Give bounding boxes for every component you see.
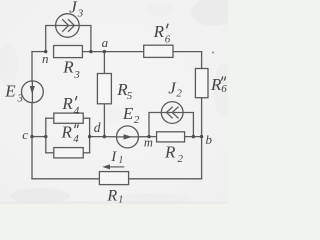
svg-text:3: 3 [77,7,84,19]
label E2 [122,104,140,126]
label R2 [164,143,184,165]
resistor R1 [99,172,128,185]
wire J3 loop right bar [79,26,91,52]
speck [212,52,214,54]
wire R5 branch: R5 to node d [103,104,105,137]
svg-text:3: 3 [17,93,24,105]
label R5 [116,80,133,102]
voltage source E2 [117,126,139,148]
node m [147,135,150,138]
svg-text:4: 4 [73,133,79,145]
svg-text:2: 2 [134,114,140,126]
wire [83,152,89,154]
node c [30,135,33,138]
junction R4 bank left [44,135,47,138]
svg-text:d: d [94,120,101,135]
svg-text:R: R [153,22,165,41]
resistor R6'' [195,69,208,98]
label R4'' [61,123,80,146]
wire bottom: R1 to bottom-right corner [129,178,202,180]
wire right: top corner to R6'' [201,52,203,69]
svg-text:R: R [62,58,74,77]
wire right: R6'' to node b [201,98,203,137]
svg-text:a: a [102,35,109,50]
wire left: corner down to E3 [31,52,33,82]
label J2 [168,79,182,100]
resistor R4' [54,113,83,123]
svg-text:6: 6 [165,34,171,46]
node a [103,50,106,53]
svg-text:E: E [122,104,134,123]
svg-text:b: b [206,132,213,147]
wire J3 loop left bar [46,26,56,52]
wire R4 bank right bar [89,118,91,153]
svg-text:R: R [164,143,176,162]
svg-text:1: 1 [118,155,123,166]
svg-text:R: R [61,123,73,142]
wire mid: node m to R2 [149,136,157,138]
svg-text:n: n [42,51,49,66]
label R1 [106,187,123,205]
current source J2 [161,102,183,124]
wire R4' stubs [46,117,54,119]
svg-text:5: 5 [127,90,133,102]
svg-text:R: R [210,75,222,94]
wire R4 bank left bar [45,118,47,153]
label R4' [61,94,79,117]
current arrow I1 [102,164,124,169]
wire mid: E2 to node m [138,136,149,138]
wire top: R3 right to node a [82,51,143,53]
wire bottom: left corner to R1 [32,178,99,180]
svg-text:2: 2 [178,153,184,165]
svg-text:c: c [22,127,28,142]
label R6'' [210,75,227,95]
wire J2 loop right bar [183,113,193,137]
wire J2 loop left bar [149,113,161,137]
resistor R2 [157,132,185,142]
svg-text:1: 1 [118,195,123,204]
label E3 [4,81,23,104]
wire mid: R2 to node b [185,136,202,138]
junction R4 bank right [88,135,91,138]
svg-text:2: 2 [176,88,182,100]
svg-text:6: 6 [221,83,227,95]
label R3 [62,58,80,81]
svg-text:m: m [144,136,153,150]
voltage source E3 [22,81,44,103]
current source J3 [56,14,80,38]
svg-text:R: R [106,187,117,204]
label J3 [69,0,84,19]
wire R4'' stubs [46,152,54,154]
junction J3 right [89,50,92,53]
resistor R5 [97,74,111,104]
svg-text:R: R [61,94,73,113]
wire right: node b to bottom corner [201,137,203,179]
svg-text:4: 4 [74,105,80,117]
wire R5 branch: node a to R5 [103,52,105,74]
wire mid: node d to E2 [104,136,116,138]
resistor R3 [54,46,83,58]
resistor R6' [144,45,173,57]
node b [200,135,203,138]
node n [44,50,47,53]
wire mid: R4 bank to node d [90,136,105,138]
label I1 [110,149,123,166]
node d [103,135,106,138]
wire top: R6' to top-right corner [173,51,202,53]
junction J2 right [192,135,195,138]
label R6' [153,22,171,45]
wire top: left corner to node n [32,51,46,53]
svg-text:I: I [110,149,117,165]
resistor R4'' [54,148,83,158]
wire mid: node c to R4 bank [32,136,46,138]
svg-text:E: E [4,81,16,100]
wire [83,117,89,119]
wire left: node c to bottom-left corner [31,137,33,179]
svg-text:3: 3 [73,69,80,81]
wire left: E3 to node c [31,103,33,137]
